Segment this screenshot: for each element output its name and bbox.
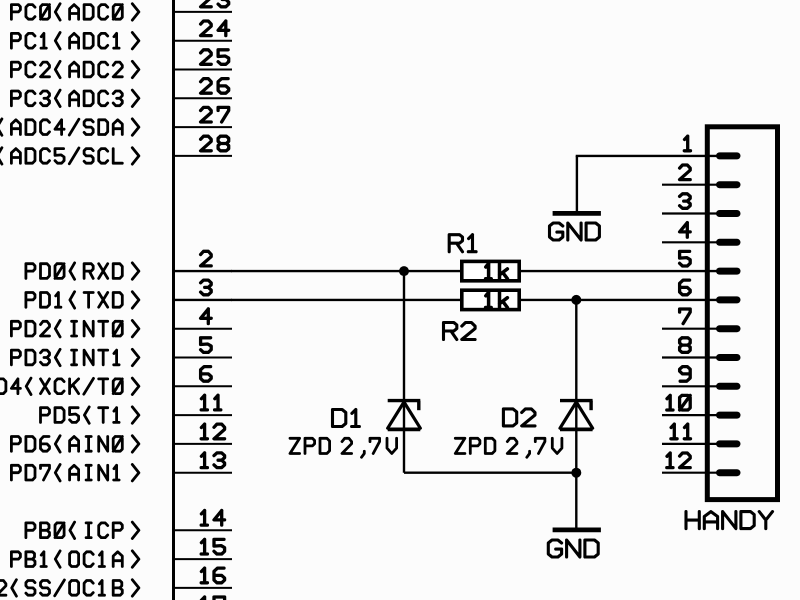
value ZPD 2,7V (D1) bbox=[290, 438, 397, 457]
value 1k (R2) bbox=[486, 292, 508, 307]
connector pin 10 stub bbox=[662, 414, 719, 416]
connector pin number 3 bbox=[680, 194, 691, 209]
connector pin 3 stub bbox=[662, 212, 719, 214]
connector pin 11 stub bbox=[662, 443, 719, 445]
connector pin 4 stub bbox=[662, 241, 719, 243]
connector HANDY body bbox=[707, 127, 777, 500]
pin number 3 bbox=[201, 280, 212, 295]
connector pin number 5 bbox=[680, 251, 691, 266]
connector pin 1 pad bbox=[720, 152, 738, 159]
label D1 bbox=[333, 410, 360, 427]
pin name PD1(TXD) bbox=[26, 292, 139, 308]
zener diode D1 bbox=[388, 399, 421, 402]
pin number 5 bbox=[201, 338, 212, 353]
pin number 6 bbox=[201, 367, 212, 382]
connector pin number 10 bbox=[667, 395, 690, 410]
pin number 2 bbox=[201, 251, 212, 266]
pin number 26 bbox=[201, 79, 229, 94]
connector pin 6 pad bbox=[720, 296, 738, 303]
pin name PD2(INT0) bbox=[11, 321, 138, 337]
pin name PB1(OC1A) bbox=[11, 551, 138, 567]
pin number 23 bbox=[201, 0, 229, 7]
pin stub 5 bbox=[174, 357, 233, 359]
pin stub 28 bbox=[174, 155, 233, 157]
label GND (bottom) bbox=[548, 540, 598, 557]
connector pin number 4 bbox=[680, 223, 691, 238]
connector pin number 12 bbox=[667, 453, 690, 468]
pin name PD3(INT1) bbox=[11, 349, 138, 365]
ground symbol (bottom) bbox=[553, 528, 601, 533]
wire D2 branch vertical bbox=[575, 300, 577, 473]
pin stub 24 bbox=[174, 40, 233, 42]
pin name PC2(ADC2) bbox=[11, 61, 138, 77]
wire GND top vertical bbox=[576, 156, 578, 211]
pin stub 2 bbox=[174, 270, 233, 272]
pin number 28 bbox=[201, 136, 229, 151]
pin stub 25 bbox=[174, 69, 233, 71]
connector pin 2 stub bbox=[662, 184, 719, 186]
wire connector pin1 to GND stub bbox=[576, 155, 719, 157]
junction dot PD1/D2 bbox=[571, 295, 581, 305]
pin name PD0(RXD) bbox=[26, 263, 139, 279]
pin name PC1(ADC1) bbox=[11, 33, 138, 49]
IC body right border bbox=[172, 0, 175, 600]
wire PD1: R2 to connector pin 6 bbox=[520, 299, 719, 301]
pin stub 15 bbox=[174, 558, 233, 560]
junction dot D1/D2/GND bbox=[571, 468, 581, 478]
connector pin 9 stub bbox=[662, 385, 719, 387]
resistor R2 body bbox=[462, 290, 519, 309]
pin stub 4 bbox=[174, 328, 233, 330]
connector pin 9 pad bbox=[720, 383, 738, 390]
label R1 bbox=[449, 235, 476, 252]
connector pin 10 pad bbox=[720, 412, 738, 419]
pin name PD6(AIN0) bbox=[11, 436, 138, 452]
pin stub 6 bbox=[174, 385, 233, 387]
pin stub 13 bbox=[174, 472, 233, 474]
pin number 11 bbox=[201, 395, 221, 410]
connector pin 12 stub bbox=[662, 472, 719, 474]
pin name PC4(ADC4/SDA) bbox=[0, 119, 139, 135]
label GND (top) bbox=[550, 223, 600, 240]
wire D2 anode to GND bbox=[575, 473, 577, 528]
connector pin number 1 bbox=[684, 136, 690, 151]
pin number 17 bbox=[201, 597, 224, 600]
label D2 bbox=[503, 409, 535, 426]
junction dot PD0/D1 bbox=[399, 266, 409, 276]
pin name PC3(ADC3) bbox=[11, 90, 138, 106]
resistor R1 body bbox=[462, 261, 519, 280]
value ZPD 2,7V (D2) bbox=[455, 438, 562, 457]
pin name PB0(ICP) bbox=[26, 522, 139, 538]
pin name PC5(ADC5/SCL) bbox=[0, 148, 139, 164]
connector pin 11 pad bbox=[720, 440, 738, 447]
pin number 14 bbox=[201, 511, 224, 526]
connector pin number 8 bbox=[680, 338, 691, 353]
value 1k (R1) bbox=[486, 264, 508, 279]
pin number 4 bbox=[201, 309, 212, 324]
pin number 15 bbox=[201, 539, 224, 554]
pin number 13 bbox=[201, 453, 224, 468]
connector pin number 11 bbox=[671, 424, 691, 439]
connector pin 5 pad bbox=[720, 268, 738, 275]
connector pin 2 pad bbox=[720, 181, 738, 188]
connector pin number 7 bbox=[680, 309, 691, 324]
pin number 24 bbox=[201, 21, 229, 36]
connector pin 7 pad bbox=[720, 325, 738, 332]
pin name PD4(XCK/T0) bbox=[0, 378, 139, 394]
wire PD1: IC pin3 to R2 bbox=[231, 299, 461, 301]
pin number 16 bbox=[201, 568, 224, 583]
pin name PB2(SS/OC1B) bbox=[0, 580, 139, 596]
connector pin number 9 bbox=[680, 367, 691, 382]
wire PD0: R1 to connector pin 5 bbox=[520, 270, 719, 272]
pin stub 26 bbox=[174, 97, 233, 99]
wire D1 anode to D2 anode horizontal bbox=[404, 472, 576, 474]
zener diode D2 bbox=[560, 399, 593, 402]
label HANDY bbox=[686, 512, 773, 529]
connector pin number 6 bbox=[680, 280, 691, 295]
wire PD0: IC pin2 to R1 bbox=[231, 270, 461, 272]
pin name PD5(T1) bbox=[41, 407, 139, 423]
ground symbol (top) bbox=[553, 211, 601, 216]
pin stub 12 bbox=[174, 443, 233, 445]
pin name PC0(ADC0) bbox=[11, 4, 138, 20]
connector pin 4 pad bbox=[720, 239, 738, 246]
pin stub 11 bbox=[174, 414, 233, 416]
connector pin 8 stub bbox=[662, 356, 719, 358]
pin stub 23 bbox=[174, 11, 233, 13]
pin stub 27 bbox=[174, 126, 233, 128]
pin number 27 bbox=[201, 107, 229, 122]
connector pin 3 pad bbox=[720, 210, 738, 217]
pin stub 16 bbox=[174, 587, 233, 589]
connector pin 7 stub bbox=[662, 328, 719, 330]
connector pin number 2 bbox=[680, 165, 691, 180]
connector pin 8 pad bbox=[720, 354, 738, 361]
wire D1 branch vertical bbox=[403, 271, 405, 473]
pin number 12 bbox=[201, 424, 224, 439]
label R2 bbox=[444, 323, 476, 340]
pin stub 14 bbox=[174, 529, 233, 531]
pin name PD7(AIN1) bbox=[11, 465, 138, 481]
connector pin 12 pad bbox=[720, 469, 738, 476]
pin number 25 bbox=[201, 50, 229, 65]
pin stub 3 bbox=[174, 299, 233, 301]
